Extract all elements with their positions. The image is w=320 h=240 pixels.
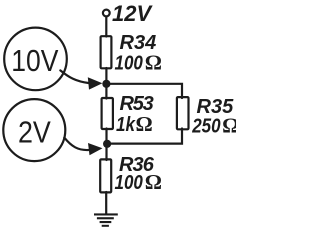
svg-text:Ω: Ω xyxy=(145,170,162,194)
annotation circle 10V xyxy=(4,28,67,91)
resistor R35 xyxy=(177,97,189,129)
svg-text:Ω: Ω xyxy=(136,112,153,136)
arrowhead 10V arrow xyxy=(88,77,103,89)
resistor R36 xyxy=(100,159,111,192)
svg-text:100: 100 xyxy=(115,170,144,193)
svg-text:Ω: Ω xyxy=(222,113,236,137)
arrowhead 2V arrow xyxy=(88,143,103,155)
arrow 2V to node B xyxy=(64,138,88,150)
node A junction xyxy=(102,80,110,88)
resistor R34 xyxy=(101,36,112,68)
wire R53 to R36 xyxy=(105,129,107,161)
svg-text:250: 250 xyxy=(191,114,221,137)
wire top branch to R35 xyxy=(106,84,182,98)
resistor R53 xyxy=(102,98,113,129)
arrow 10V to node A xyxy=(60,70,88,83)
wire R36 to ground xyxy=(105,192,107,214)
svg-text:100: 100 xyxy=(115,51,144,74)
annotation circle 2V xyxy=(3,99,65,161)
svg-text:Ω: Ω xyxy=(145,51,162,75)
ground xyxy=(94,213,118,226)
wire terminal to R34 xyxy=(105,17,107,37)
svg-text:12V: 12V xyxy=(112,1,153,26)
terminal 12V xyxy=(103,10,110,17)
svg-text:1k: 1k xyxy=(116,113,136,136)
wire R34 to R53 xyxy=(105,68,107,99)
svg-text:2V: 2V xyxy=(18,116,51,150)
node B junction xyxy=(103,140,111,148)
wire bottom branch from R35 xyxy=(107,129,182,144)
svg-text:10V: 10V xyxy=(11,44,59,78)
